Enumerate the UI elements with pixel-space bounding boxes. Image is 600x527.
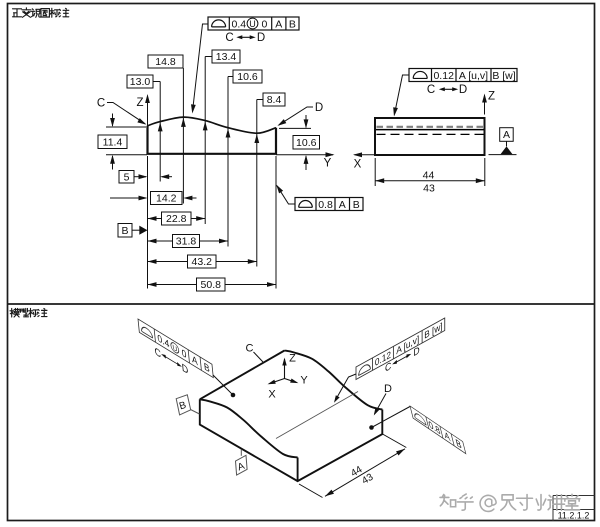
svg-text:0: 0 (262, 18, 268, 30)
side view solid line (376, 129, 484, 131)
model dim 44 43 (299, 434, 406, 498)
dim 50.8 (148, 284, 277, 286)
model block outline (200, 399, 382, 481)
svg-text:B [w]: B [w] (492, 70, 515, 82)
svg-text:D: D (459, 84, 467, 96)
svg-text:14.2: 14.2 (156, 193, 177, 205)
section divider (8, 303, 595, 305)
side view gray dashed line (377, 126, 484, 128)
dim box 8.4 (263, 93, 285, 106)
svg-text:B: B (289, 18, 296, 30)
dim 5 (134, 176, 146, 178)
svg-text:Y: Y (300, 375, 308, 387)
dim box 11.4 (98, 135, 127, 149)
svg-text:A: A (503, 129, 510, 141)
dim box 13.4 (212, 50, 240, 63)
title orthographic view annotation (13, 9, 22, 17)
FCF1 leader (193, 24, 209, 112)
figure number table (553, 496, 595, 522)
svg-text:10.6: 10.6 (296, 137, 317, 149)
svg-text:A [u,v]: A [u,v] (459, 70, 488, 82)
model trough line (276, 392, 358, 439)
svg-text:C: C (427, 84, 435, 96)
svg-text:D: D (257, 32, 265, 44)
svg-text:43: 43 (423, 183, 435, 195)
dim box 10.6 right (293, 136, 320, 150)
svg-text:B: B (121, 225, 128, 237)
dim box 14.8 (148, 55, 183, 68)
svg-text:10.6: 10.6 (237, 71, 258, 83)
svg-text:A: A (275, 18, 282, 30)
svg-text:C: C (246, 343, 254, 355)
svg-text:44: 44 (423, 170, 435, 182)
FCF2 leader (394, 75, 409, 115)
svg-text:14.8: 14.8 (155, 56, 176, 68)
svg-text:5: 5 (124, 171, 130, 183)
ordinate dimension lines with arrows (159, 82, 161, 182)
svg-text:D: D (384, 383, 392, 395)
svg-text:Z: Z (289, 353, 296, 365)
svg-text:A: A (339, 199, 346, 211)
datum A side view (489, 154, 517, 156)
svg-text:U: U (249, 19, 256, 29)
dim box 13.0 (127, 75, 153, 88)
svg-text:Z: Z (136, 97, 143, 109)
feature control frame 0.4 U 0 A B (208, 17, 299, 30)
dim 43.2 (148, 261, 257, 263)
dim 14.2 (110, 197, 146, 199)
svg-text:0.8: 0.8 (318, 199, 333, 211)
dim 31.8 (148, 240, 229, 242)
model FCF 0.8 A B (410, 406, 466, 454)
svg-text:X: X (268, 389, 276, 401)
dim 10.6 extension line (279, 127, 311, 129)
model axes (284, 359, 286, 379)
model FCF 0.4 leader and dot (213, 375, 233, 395)
svg-text:Y: Y (324, 158, 332, 170)
svg-text:8.4: 8.4 (267, 94, 282, 106)
svg-text:C: C (225, 32, 233, 44)
svg-text:D: D (315, 102, 323, 114)
title model annotation (10, 308, 19, 317)
model FCF 0.4 U 0 A B (138, 319, 215, 393)
side view dashed line (377, 133, 484, 135)
dim 11.4 arrows (112, 114, 114, 127)
feature control frame 0.12 A[u,v] B[w] (409, 69, 517, 82)
svg-text:Z: Z (488, 91, 495, 103)
Z axis side view (484, 95, 486, 115)
svg-text:C: C (97, 98, 105, 110)
svg-text:22.8: 22.8 (166, 213, 187, 225)
model FCF 0.12 leader (335, 374, 356, 401)
dimension leader stubs (153, 57, 263, 100)
svg-text:0.12: 0.12 (433, 70, 454, 82)
svg-text:0.4: 0.4 (232, 18, 247, 30)
svg-text:X: X (354, 159, 362, 171)
dim 10.6 arrows (305, 115, 307, 127)
svg-text:50.8: 50.8 (201, 279, 222, 291)
dim box 10.6 upper (233, 70, 262, 83)
model datum A (236, 455, 248, 475)
svg-text:11.4: 11.4 (103, 136, 123, 148)
svg-text:43.2: 43.2 (192, 256, 213, 268)
watermark zhihu (440, 495, 456, 507)
dim 44 43 side view (375, 158, 485, 186)
Z axis front view (147, 96, 149, 127)
svg-text:B: B (353, 199, 360, 211)
FCF3 leader (277, 186, 295, 204)
front view outline (148, 126, 277, 154)
svg-text:13.0: 13.0 (130, 76, 151, 88)
datum B front view (118, 224, 132, 238)
model datum B (176, 395, 191, 415)
X axis side view (355, 154, 375, 156)
svg-text:31.8: 31.8 (176, 236, 197, 248)
svg-text:13.4: 13.4 (216, 51, 237, 63)
feature control frame 0.8 A B (295, 198, 363, 211)
Y axis front view (276, 154, 333, 156)
model FCF 0.12 A[u,v] B[w] (356, 318, 445, 391)
model FCF 0.8 leader and dot (372, 407, 411, 428)
side view rectangle (375, 118, 485, 155)
dim 22.8 (148, 218, 206, 220)
svg-text:11.2.1.2: 11.2.1.2 (558, 511, 590, 521)
extension lines below (148, 156, 277, 289)
dim 11.4 extension lines (106, 127, 147, 155)
